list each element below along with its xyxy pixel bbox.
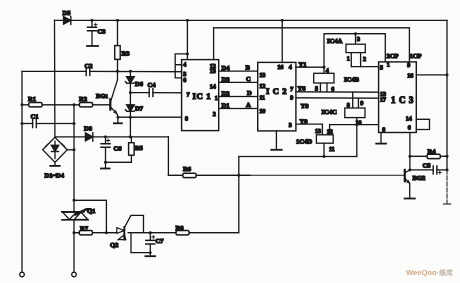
wire IC2 pin16 power stub bbox=[281, 20, 283, 62]
svg-text:R1: R1 bbox=[28, 96, 36, 103]
svg-text:7: 7 bbox=[290, 87, 293, 93]
svg-text:10: 10 bbox=[259, 109, 265, 115]
wire 2CP stub bbox=[384, 34, 386, 62]
capacitor C3 bbox=[88, 20, 98, 45]
gate IC4C bbox=[345, 92, 365, 157]
wire D8 line bbox=[55, 136, 168, 138]
wire D1-A bbox=[219, 108, 258, 110]
wire C4 line to IC1 pin7 bbox=[130, 92, 181, 94]
capacitor C6 bbox=[101, 137, 110, 162]
svg-text:1: 1 bbox=[387, 62, 390, 68]
node rail-IC1 junction bbox=[186, 19, 189, 22]
wire x74 vertical bbox=[73, 105, 75, 272]
svg-text:13: 13 bbox=[315, 129, 321, 135]
gate IC4D bbox=[316, 124, 333, 156]
wire IC3 bottom stub to BG2 bbox=[409, 133, 411, 170]
triac Q1 bbox=[62, 209, 91, 220]
node IC4A pin3 junction bbox=[354, 32, 357, 35]
wire D3-C bbox=[219, 81, 258, 83]
wire Y0 bbox=[296, 123, 323, 125]
svg-text:R6: R6 bbox=[183, 166, 192, 173]
wire Y1 bbox=[296, 66, 324, 68]
svg-text:D7: D7 bbox=[135, 106, 144, 113]
svg-text:16: 16 bbox=[277, 65, 283, 71]
svg-text:9: 9 bbox=[407, 63, 410, 69]
svg-text:D1~D4: D1~D4 bbox=[45, 173, 65, 180]
svg-text:11: 11 bbox=[259, 96, 265, 102]
resistor R1 bbox=[29, 103, 42, 107]
capacitor C7 bbox=[146, 233, 155, 253]
wire IC1 input bracket bbox=[175, 54, 187, 78]
svg-text:D4: D4 bbox=[222, 65, 231, 72]
svg-text:9: 9 bbox=[290, 96, 293, 102]
IC1 box bbox=[182, 60, 219, 131]
wire crossover hump bbox=[125, 215, 144, 232]
svg-text:C5: C5 bbox=[423, 163, 432, 170]
wire IC1 pin12 clock stub and inner rail bbox=[214, 28, 410, 60]
terminal AC right bbox=[72, 272, 77, 277]
bridge rectifier D1~D4 bbox=[43, 137, 68, 162]
node C5 right junction bbox=[446, 168, 449, 171]
svg-text:Y1: Y1 bbox=[299, 62, 307, 69]
wire IC3 pin16 to right rail bbox=[416, 74, 447, 76]
svg-text:16: 16 bbox=[407, 73, 413, 79]
svg-text:D2: D2 bbox=[222, 90, 231, 97]
wire Y8 bbox=[296, 97, 379, 99]
ground at BG1 emitter bbox=[114, 117, 122, 123]
svg-text:8: 8 bbox=[185, 116, 188, 122]
node R7 right junction bbox=[105, 231, 108, 234]
svg-text:14: 14 bbox=[406, 116, 412, 122]
svg-text:1C4D: 1C4D bbox=[296, 139, 312, 146]
svg-text:4: 4 bbox=[326, 68, 329, 74]
node pin12-pin10 junction bbox=[355, 123, 358, 126]
svg-text:4: 4 bbox=[289, 65, 292, 71]
wire top rail bbox=[55, 19, 448, 21]
capacitor C5 bbox=[410, 166, 447, 174]
capacitor C2 bbox=[86, 67, 90, 75]
wire bridge right corner to x74 bbox=[67, 149, 74, 151]
svg-text:5: 5 bbox=[315, 87, 318, 93]
svg-text:13: 13 bbox=[259, 73, 265, 79]
svg-text:R3: R3 bbox=[122, 51, 131, 58]
svg-text:D: D bbox=[247, 90, 252, 97]
wire C6-R5 bottom link bbox=[106, 161, 132, 163]
IC4A power wire bbox=[324, 34, 385, 67]
svg-text:R7: R7 bbox=[80, 226, 89, 233]
node C6 bottom junction bbox=[104, 161, 107, 164]
svg-text:B: B bbox=[246, 65, 251, 72]
IC3 box bbox=[379, 62, 417, 133]
node D6-D7 midpoint (C4 tap) bbox=[129, 91, 132, 94]
node W1 pin11 junction bbox=[323, 155, 326, 158]
svg-text:Y8: Y8 bbox=[301, 103, 310, 110]
wire C1 line bbox=[22, 123, 74, 125]
node D8-C6 junction bbox=[104, 135, 107, 138]
svg-text:Y0: Y0 bbox=[300, 118, 309, 125]
wire x55 vertical to bridge top bbox=[54, 20, 56, 137]
svg-text:D6: D6 bbox=[135, 81, 144, 88]
resistor R4 bbox=[410, 154, 447, 158]
wire IC1 pin8 line bbox=[118, 116, 182, 118]
svg-text:14: 14 bbox=[210, 85, 216, 91]
svg-text:5: 5 bbox=[380, 65, 383, 71]
svg-text:17: 17 bbox=[380, 98, 386, 104]
svg-text:Y6: Y6 bbox=[298, 86, 307, 93]
ground IC2 bottom bbox=[271, 131, 281, 150]
svg-text:1 C 3: 1 C 3 bbox=[391, 95, 414, 105]
node R7 left junction bbox=[73, 231, 76, 234]
svg-text:D1: D1 bbox=[222, 102, 230, 109]
node emitter-pin8 junction bbox=[117, 116, 120, 119]
wire W1 trigger bus bbox=[239, 156, 357, 158]
node C1-right junction bbox=[73, 122, 76, 125]
transistor BG2 bbox=[405, 170, 410, 198]
svg-text:4: 4 bbox=[183, 63, 186, 69]
resistor R6 bbox=[183, 173, 196, 177]
svg-text:7: 7 bbox=[187, 93, 190, 99]
resistor R8 bbox=[176, 231, 239, 235]
node Y1 junction bbox=[323, 66, 326, 69]
node rail-R3 junction bbox=[116, 19, 119, 22]
node R1-left junction bbox=[21, 103, 24, 106]
svg-text:D8: D8 bbox=[84, 126, 93, 133]
svg-text:BG1: BG1 bbox=[96, 93, 109, 100]
wire R1 line bbox=[22, 104, 110, 106]
diac Q2 bbox=[117, 227, 126, 240]
svg-text:I C 2: I C 2 bbox=[266, 86, 287, 96]
svg-text:13: 13 bbox=[210, 69, 216, 75]
node rail-C3 junction bbox=[91, 19, 94, 22]
svg-text:2: 2 bbox=[363, 57, 366, 63]
wire R8 riser x240 bbox=[238, 157, 240, 233]
svg-text:12: 12 bbox=[327, 130, 333, 136]
resistor R5 bbox=[129, 137, 135, 162]
ground below C6 bbox=[101, 162, 110, 168]
wire IC1 top power stub bbox=[186, 20, 188, 59]
node pin16-rail junction bbox=[446, 73, 449, 76]
gate IC4B bbox=[314, 67, 334, 92]
svg-text:R8: R8 bbox=[176, 225, 185, 232]
svg-text:2: 2 bbox=[213, 112, 216, 118]
svg-text:Q1: Q1 bbox=[87, 208, 95, 215]
wire C7 lower link bbox=[131, 233, 150, 253]
svg-text:IC4A: IC4A bbox=[327, 38, 343, 45]
svg-text:1CP: 1CP bbox=[410, 53, 422, 60]
svg-text:IC 1: IC 1 bbox=[193, 91, 212, 101]
svg-text:BG2: BG2 bbox=[413, 175, 427, 182]
svg-text:D5: D5 bbox=[63, 10, 72, 17]
wire D4-B bbox=[219, 70, 258, 72]
svg-text:8: 8 bbox=[382, 128, 385, 134]
svg-text:1: 1 bbox=[347, 57, 350, 63]
svg-text:8: 8 bbox=[347, 103, 350, 109]
watermark WeeQoo bbox=[402, 265, 458, 279]
node BG2 collector junction bbox=[408, 168, 411, 171]
wire Y6 bbox=[296, 91, 379, 93]
node R4 right junction bbox=[446, 155, 449, 158]
svg-text:R4: R4 bbox=[428, 149, 437, 156]
ground IC3 pin8 bbox=[376, 133, 386, 144]
svg-text:3: 3 bbox=[357, 37, 360, 43]
svg-text:C3: C3 bbox=[98, 29, 107, 36]
wire D2-D bbox=[219, 96, 258, 98]
wire IC4D pin12 line to IC3 bbox=[330, 124, 379, 126]
wire R6 riser bbox=[167, 137, 169, 175]
node D8-R5 junction bbox=[129, 135, 132, 138]
ground below C7 bbox=[145, 253, 155, 257]
gate IC4A bbox=[346, 34, 365, 67]
ground below C3 bbox=[87, 45, 98, 47]
svg-text:2CP: 2CP bbox=[387, 53, 399, 60]
wire trigger line Q2 segment bbox=[106, 232, 176, 234]
svg-text:IC4B: IC4B bbox=[344, 77, 360, 84]
svg-text:WeeQoo·维库: WeeQoo·维库 bbox=[406, 268, 453, 277]
node D7-pin8 junction bbox=[129, 116, 132, 119]
node R2-left junction bbox=[73, 103, 76, 106]
svg-text:3: 3 bbox=[289, 123, 292, 129]
node D6-C2line junction bbox=[129, 70, 132, 73]
ground below bridge bbox=[50, 162, 59, 166]
node base line riser junction bbox=[237, 174, 240, 177]
capacitor C1 bbox=[33, 120, 37, 128]
wire triac bypass bbox=[74, 200, 106, 232]
node R3-C2line junction bbox=[116, 70, 119, 73]
svg-text:C4: C4 bbox=[148, 82, 157, 89]
diode D8 bbox=[85, 133, 92, 141]
diode D7 (zener) bbox=[125, 93, 134, 137]
resistor R2 bbox=[79, 103, 92, 107]
svg-text:9: 9 bbox=[360, 101, 363, 107]
ground BG2 emitter bbox=[405, 198, 415, 200]
resistor R3 bbox=[115, 20, 121, 71]
wire C2 line bbox=[22, 70, 175, 72]
svg-text:A: A bbox=[246, 102, 251, 109]
node C1-left junction bbox=[21, 122, 24, 125]
wire IC4A out to IC3 pin5 bbox=[351, 66, 378, 68]
diode D6 (zener) bbox=[125, 71, 134, 92]
resistor R7 bbox=[74, 231, 106, 235]
svg-text:C7: C7 bbox=[156, 238, 165, 245]
svg-text:Q2: Q2 bbox=[110, 242, 119, 249]
wire right edge vertical bbox=[444, 20, 451, 204]
node rail-IC2 junction bbox=[281, 19, 284, 22]
svg-text:R2: R2 bbox=[79, 96, 88, 103]
svg-text:D3: D3 bbox=[222, 76, 231, 83]
node R4 left junction bbox=[408, 155, 411, 158]
node triac top bypass junction bbox=[73, 199, 76, 202]
wire 1CP stub bbox=[408, 28, 410, 62]
wire left vertical from corner to terminal bbox=[21, 71, 23, 272]
wire R6 to BG2 base line bbox=[168, 174, 404, 176]
node bridge-x74 junction bbox=[73, 148, 76, 151]
svg-text:11: 11 bbox=[329, 147, 335, 153]
svg-text:6: 6 bbox=[331, 87, 334, 93]
svg-text:6: 6 bbox=[183, 78, 186, 84]
svg-text:12: 12 bbox=[259, 84, 265, 90]
svg-text:6: 6 bbox=[408, 125, 411, 131]
svg-text:IC4C: IC4C bbox=[322, 109, 338, 116]
transistor BG1 bbox=[110, 71, 118, 117]
node C7 bottom junction bbox=[149, 251, 152, 254]
svg-text:C2: C2 bbox=[85, 63, 94, 70]
IC2 box bbox=[258, 62, 296, 130]
svg-text:C: C bbox=[246, 76, 251, 83]
svg-text:1: 1 bbox=[215, 96, 218, 102]
diode D5 bbox=[64, 16, 71, 24]
terminal AC left bbox=[20, 272, 25, 277]
svg-text:C6: C6 bbox=[114, 146, 123, 153]
node IC1 bracket junction bbox=[186, 52, 189, 55]
svg-text:R5: R5 bbox=[135, 145, 144, 152]
capacitor C4 bbox=[149, 89, 153, 97]
node C7 top junction bbox=[149, 231, 152, 234]
wire IC3 pin14-pin6 loop bbox=[416, 119, 429, 129]
svg-text:C1: C1 bbox=[31, 114, 39, 121]
